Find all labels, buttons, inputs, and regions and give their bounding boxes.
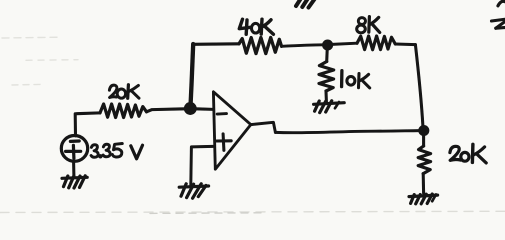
resistor R_20K (input) zigzag [100,104,147,118]
resistor R_20K (load) vertical zigzag [418,146,430,174]
wire: 40K to junction [282,45,324,47]
op-amp non-inverting pin label + [217,139,232,142]
wire: feedback top-left corner horizontal segment [193,42,239,46]
wire: 8K to right corner [395,43,415,47]
ground symbol under source [62,176,87,188]
value label 8K [357,17,380,33]
wire: output run to right junction [275,131,419,133]
junction node dot (40K/8K/10K) [323,40,333,50]
ground symbol at op-amp + input [179,184,208,198]
wire: bold vertical feedback drop to inverting node [191,44,194,104]
wire: stub junction to 10K [325,50,329,62]
wire: op-amp output squiggle [251,122,276,132]
wire: non-inverting pin to ground [191,146,213,185]
value label 20K (input) [109,85,139,99]
ground symbol under 20K load [409,194,438,204]
wire: source to ground [72,162,75,177]
value label 20K (load) [450,144,486,163]
wire: stub 20K to ground [422,174,425,194]
wire: source top riser [74,114,77,136]
op-amp U1 triangle [213,92,250,169]
voltage source V1 circle [61,136,87,162]
value label 40K [239,19,273,34]
value label 10K [342,71,370,88]
ground symbol under 10K [314,101,345,113]
value label 3.35V [91,144,142,159]
wire: stub junction to 20K (load) [422,135,425,146]
partial ground symbol at top (cropped) [296,0,315,8]
source plus mark [66,150,81,153]
inverting input node dot [185,103,196,114]
wire: node to op-amp inverting pin [196,107,214,111]
resistor R_40K zigzag [239,38,282,54]
wire: 20K to inverting node [147,109,186,112]
source minus mark [70,139,79,143]
wire: right vertical drop [415,45,423,126]
resistor R_8K zigzag [357,36,395,50]
resistor R_10K vertical zigzag [319,62,334,92]
wire: stub 10K to ground [324,91,327,102]
stray arc mark, top-right corner [498,1,505,6]
partial ground symbol at right edge (cropped) [492,19,505,28]
wire: source corner to 20K [77,111,100,115]
op-amp inverting pin label - [217,112,226,115]
output junction node dot [419,126,429,136]
wire: junction to 8K [332,43,357,44]
